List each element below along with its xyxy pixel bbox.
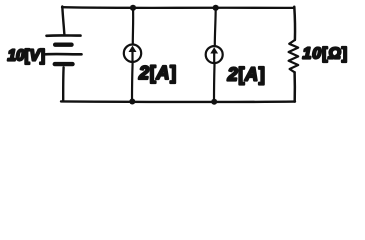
wire: top bus [62,6,294,9]
current source I1 2[A] [124,45,141,62]
label 10[V] [8,47,45,64]
svg-text:2[A]: 2[A] [227,64,266,84]
node: top junction of branch 2 [213,5,219,11]
wire: left branch top segment (battery + terminal lead) [62,7,64,35]
label 2[A] (I1) [138,63,177,83]
current source I2 2[A] [206,46,223,63]
label 2[A] (I2) [227,64,266,84]
svg-text:2[A]: 2[A] [138,63,177,83]
wire: bottom bus [61,100,295,103]
node: bottom junction of branch 1 [129,99,135,105]
svg-text:10[V]: 10[V] [8,47,45,64]
node: top junction of branch 1 [130,5,136,11]
wire: left branch bottom segment [62,67,65,101]
wire: right branch bottom segment [293,72,296,101]
label 10[Ω] [303,45,348,62]
resistor R1 10[Ω] [289,40,299,72]
wire: branch 2 top segment [214,8,217,46]
battery V1 10[V] [46,35,82,64]
wire: branch 1 bottom segment [131,63,134,101]
wire: branch 1 top segment [132,8,135,44]
wire: right branch top segment [293,7,296,40]
node: bottom junction of branch 2 [211,99,217,105]
svg-text:10[Ω]: 10[Ω] [303,45,348,62]
wire: branch 2 bottom segment [213,64,216,101]
